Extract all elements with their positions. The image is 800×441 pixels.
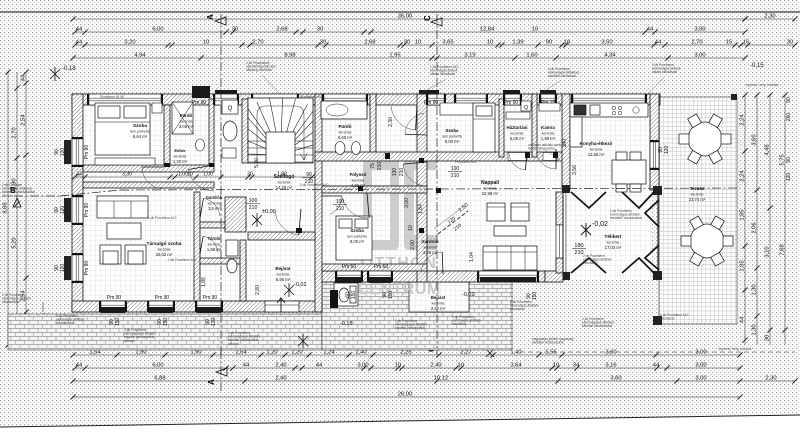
svg-text:Terasz: Terasz bbox=[690, 186, 705, 192]
svg-text:lam.parketta: lam.parketta bbox=[347, 235, 367, 239]
svg-text:44: 44 bbox=[316, 363, 323, 369]
svg-text:3,10: 3,10 bbox=[765, 246, 771, 257]
svg-text:haránt vakolással: haránt vakolással bbox=[652, 70, 677, 74]
svg-text:10,12: 10,12 bbox=[434, 376, 449, 382]
svg-text:3,56: 3,56 bbox=[572, 165, 578, 175]
interior rotated dims bbox=[201, 117, 578, 295]
interior wall társalgó/closets bbox=[194, 192, 200, 301]
note bottom 4 bbox=[395, 319, 427, 330]
note mid bbox=[300, 183, 329, 187]
note wall top2 bbox=[300, 95, 322, 99]
svg-text:120: 120 bbox=[60, 206, 66, 215]
dim chain bottom row3 bbox=[70, 376, 797, 384]
svg-text:építési hely határa: építési hely határa bbox=[746, 82, 779, 87]
exterior wall konyha east bbox=[650, 94, 659, 190]
svg-text:5,06 m²: 5,06 m² bbox=[510, 136, 525, 141]
section line A overlay bbox=[220, 90, 222, 355]
svg-text:lam.parketta: lam.parketta bbox=[442, 135, 462, 139]
svg-text:3,65: 3,65 bbox=[442, 40, 453, 46]
sill west 3 bbox=[64, 256, 71, 280]
headboard shelf szoba2 bbox=[440, 103, 473, 115]
kamra shelf bbox=[539, 103, 560, 111]
svg-text:3,06 m²: 3,06 m² bbox=[179, 124, 194, 129]
svg-text:44: 44 bbox=[653, 363, 660, 369]
svg-text:1,85: 1,85 bbox=[740, 260, 746, 271]
svg-text:1 db Porotherm A10: 1 db Porotherm A10 bbox=[148, 216, 177, 220]
dim chain right col3 bbox=[765, 92, 773, 345]
window szélfogó north bbox=[251, 94, 299, 105]
svg-text:44: 44 bbox=[21, 74, 27, 81]
svg-text:2,25: 2,25 bbox=[400, 350, 411, 356]
room label tároló bbox=[207, 236, 222, 252]
level star szélfogó bbox=[252, 213, 262, 227]
svg-text:1,40: 1,40 bbox=[510, 350, 521, 356]
kitchen counter bbox=[570, 103, 648, 117]
window szoba2 north small bbox=[426, 94, 446, 105]
svg-text:3,60: 3,60 bbox=[605, 350, 616, 356]
interior wall middle column west bbox=[315, 94, 322, 312]
washer háztartási bbox=[506, 112, 530, 119]
svg-text:2,54: 2,54 bbox=[21, 114, 27, 126]
svg-text:Pm 90: Pm 90 bbox=[504, 100, 519, 106]
svg-text:A: A bbox=[206, 14, 215, 20]
svg-text:17,03 m²: 17,03 m² bbox=[605, 245, 622, 250]
floor terasz bbox=[659, 97, 737, 324]
svg-text:30: 30 bbox=[404, 40, 410, 46]
svg-text:2,40: 2,40 bbox=[275, 363, 286, 369]
svg-text:210: 210 bbox=[377, 162, 383, 171]
svg-text:75: 75 bbox=[370, 163, 376, 169]
svg-text:3,20: 3,20 bbox=[124, 40, 135, 46]
interior wall wc east bbox=[240, 240, 246, 301]
svg-text:Folyosó: Folyosó bbox=[350, 172, 367, 177]
interior wall szélfogó/bejárat bbox=[248, 232, 315, 240]
room label bejárat1 bbox=[276, 266, 291, 282]
svg-text:100: 100 bbox=[336, 199, 345, 205]
télikert west glass bbox=[562, 192, 564, 273]
window nappali south bbox=[477, 271, 539, 282]
interior wall konyha west bbox=[562, 94, 570, 190]
svg-text:90: 90 bbox=[306, 172, 312, 178]
svg-text:Q: Q bbox=[228, 106, 233, 112]
svg-text:10: 10 bbox=[415, 40, 421, 46]
room label terasz bbox=[689, 186, 706, 202]
boiler wc column bbox=[222, 100, 238, 114]
svg-text:Szoba: Szoba bbox=[446, 128, 459, 133]
note mid4 bbox=[455, 160, 476, 164]
svg-text:2,30: 2,30 bbox=[764, 14, 775, 20]
note top 2 bbox=[430, 65, 459, 76]
svg-text:100: 100 bbox=[451, 166, 460, 172]
svg-text:-0,02: -0,02 bbox=[592, 221, 608, 228]
svg-text:10: 10 bbox=[187, 172, 193, 178]
svg-text:3,50: 3,50 bbox=[601, 40, 612, 46]
sill Pm60 a bbox=[337, 277, 361, 283]
exterior wall west bbox=[72, 94, 83, 312]
svg-text:2,30: 2,30 bbox=[388, 117, 394, 127]
right window size labels bbox=[786, 97, 792, 181]
room label szélfogó bbox=[274, 174, 295, 190]
svg-text:1,20: 1,20 bbox=[291, 350, 302, 356]
svg-text:kerámia: kerámia bbox=[278, 181, 291, 185]
interior wall middle column east bbox=[417, 94, 427, 282]
dim chain right col2 bbox=[752, 92, 760, 345]
svg-text:10: 10 bbox=[487, 40, 493, 46]
armchair társalgó 2 bbox=[125, 245, 146, 264]
svg-text:30: 30 bbox=[232, 27, 238, 33]
svg-text:150: 150 bbox=[388, 291, 394, 300]
svg-text:10: 10 bbox=[395, 363, 401, 369]
window south Pm90 b bbox=[147, 301, 175, 312]
note bottom 9 bbox=[660, 313, 689, 321]
svg-text:Pm 90: Pm 90 bbox=[203, 295, 218, 301]
jamb marks bbox=[164, 152, 558, 308]
svg-text:23,74 m²: 23,74 m² bbox=[689, 197, 706, 202]
svg-text:90: 90 bbox=[786, 157, 792, 163]
interior wall szoba3 south bbox=[322, 264, 427, 271]
lintel bar kamra bbox=[540, 90, 556, 95]
svg-text:30: 30 bbox=[320, 40, 326, 46]
svg-text:4,94: 4,94 bbox=[134, 53, 146, 59]
room label nappali bbox=[481, 180, 500, 196]
svg-text:Gardrób: Gardrób bbox=[206, 195, 223, 200]
window south Pm60 b bbox=[367, 271, 393, 282]
svg-text:kerámia: kerámia bbox=[511, 132, 524, 136]
room label szoba1 bbox=[130, 123, 150, 139]
svg-text:6,95 m²: 6,95 m² bbox=[276, 277, 291, 282]
svg-text:3,00: 3,00 bbox=[695, 376, 706, 382]
svg-text:betolásokkal: betolásokkal bbox=[56, 321, 74, 325]
dim chain bottom row2 bbox=[72, 363, 742, 371]
svg-text:Szoba: Szoba bbox=[133, 123, 147, 129]
svg-text:8,88: 8,88 bbox=[3, 202, 9, 213]
svg-text:építési hely határa: építési hely határa bbox=[719, 346, 752, 351]
note top 4 bbox=[652, 63, 681, 74]
leader line bbox=[262, 75, 280, 94]
svg-text:5,20: 5,20 bbox=[12, 237, 18, 248]
wardrobe szoba1 bbox=[95, 158, 155, 165]
svg-text:120: 120 bbox=[786, 173, 792, 182]
svg-text:2,70: 2,70 bbox=[12, 127, 18, 138]
dim chain right col1 bbox=[740, 92, 748, 345]
svg-text:Q: Q bbox=[524, 105, 529, 111]
section line A bbox=[206, 14, 227, 392]
lintel bar wc bbox=[215, 90, 237, 94]
section line B overlay bbox=[60, 190, 120, 196]
floor szoba1 + társalgó bbox=[83, 105, 315, 301]
exterior wall south-left bbox=[72, 301, 322, 312]
svg-text:30: 30 bbox=[247, 172, 253, 178]
svg-text:2,06: 2,06 bbox=[752, 222, 758, 233]
svg-text:alkosok: alkosok bbox=[124, 339, 135, 343]
télikert folding door east 2 bbox=[645, 245, 659, 270]
door bejárat2-nappali bbox=[421, 252, 443, 274]
dim chain bottom row4 26,00 bbox=[70, 392, 742, 400]
svg-text:1,30: 1,30 bbox=[752, 284, 758, 295]
svg-text:betolási vakolásokkal: betolási vakolásokkal bbox=[582, 324, 612, 328]
note bottom 2 bbox=[124, 328, 156, 343]
interior wall szoba2/háztartási bbox=[499, 99, 504, 157]
sliding door nappali-télikert bbox=[556, 225, 563, 258]
basin fürdő1 bbox=[196, 139, 205, 151]
door előtér2 bbox=[391, 104, 417, 130]
level star télikert bbox=[581, 223, 591, 237]
dim chain top row1 2,30 bbox=[742, 14, 797, 22]
svg-text:2,24: 2,24 bbox=[740, 170, 746, 182]
room label előtér bbox=[173, 148, 188, 164]
interior wall fürdő1 east bbox=[209, 99, 214, 167]
svg-text:kerámia: kerámia bbox=[607, 241, 620, 245]
room label társalgó bbox=[147, 241, 182, 257]
note télikert 2 bbox=[583, 254, 612, 265]
section line B bbox=[10, 186, 60, 207]
svg-text:8,64 m²: 8,64 m² bbox=[133, 134, 148, 139]
svg-text:130: 130 bbox=[392, 168, 398, 177]
dim chain top row2 bbox=[72, 27, 747, 35]
svg-text:260: 260 bbox=[786, 113, 792, 122]
svg-text:1,98 m²: 1,98 m² bbox=[207, 247, 222, 252]
svg-text:26,00: 26,00 bbox=[398, 392, 413, 398]
svg-text:210: 210 bbox=[336, 206, 345, 212]
floor télikert bbox=[563, 185, 651, 280]
svg-text:C: C bbox=[423, 15, 432, 21]
svg-text:44: 44 bbox=[647, 27, 654, 33]
door szoba1 bbox=[142, 167, 164, 189]
opening size label bbox=[246, 198, 260, 211]
svg-text:-0,15: -0,15 bbox=[750, 63, 764, 69]
svg-text:kerámia: kerámia bbox=[542, 132, 555, 136]
window konyha east bbox=[650, 140, 659, 170]
svg-text:180: 180 bbox=[574, 243, 583, 249]
exterior wall south-middle bbox=[315, 271, 545, 282]
dim chain left inner bbox=[21, 69, 29, 347]
svg-text:Fürdő: Fürdő bbox=[180, 113, 193, 118]
svg-text:Pm 90: Pm 90 bbox=[84, 261, 90, 276]
svg-text:120: 120 bbox=[664, 146, 670, 155]
entrance arrow bejárat1 bbox=[277, 298, 285, 312]
interior wall tároló/wc bbox=[200, 258, 246, 264]
room label gardrób1 bbox=[206, 195, 223, 211]
svg-text:-0,18: -0,18 bbox=[340, 321, 353, 327]
interior wall gardrób/tároló bbox=[200, 222, 246, 228]
level star walkway bbox=[298, 334, 308, 348]
svg-text:3,00: 3,00 bbox=[357, 363, 368, 369]
bed szoba2 bbox=[473, 103, 495, 152]
svg-text:atváltási vezetésszinte: atváltási vezetésszinte bbox=[532, 341, 564, 345]
opening size label bbox=[302, 172, 316, 185]
note bottom 1 bbox=[56, 314, 85, 325]
svg-text:Pm 60: Pm 60 bbox=[374, 264, 389, 270]
coffee table társalgó bbox=[107, 223, 141, 239]
svg-text:4,48: 4,48 bbox=[765, 144, 771, 155]
télikert corner post nw bbox=[562, 185, 570, 193]
svg-text:kerámia: kerámia bbox=[180, 120, 193, 124]
room label fürdő1 bbox=[179, 113, 194, 129]
svg-text:kerámia: kerámia bbox=[352, 179, 365, 183]
note lintel bbox=[528, 143, 566, 151]
note left2 bbox=[2, 293, 31, 304]
svg-text:100: 100 bbox=[249, 198, 258, 204]
floor middle column bbox=[322, 105, 427, 271]
svg-text:120: 120 bbox=[211, 318, 217, 327]
télikert east glass bbox=[657, 192, 659, 273]
interior wall szoba1 east bbox=[164, 105, 170, 167]
svg-text:kerámia: kerámia bbox=[339, 131, 352, 135]
svg-text:Porotherm 44K: Porotherm 44K bbox=[300, 95, 322, 99]
opening size label bbox=[572, 243, 586, 256]
terasz corner post sw bbox=[653, 316, 662, 325]
paved walkway hatched band middle bbox=[322, 282, 512, 350]
svg-text:1,20 m²: 1,20 m² bbox=[173, 159, 188, 164]
svg-text:Nappali: Nappali bbox=[481, 180, 500, 186]
window south Pm90 a bbox=[99, 301, 127, 312]
dining table konyha bbox=[612, 152, 646, 192]
svg-text:1,39: 1,39 bbox=[512, 40, 523, 46]
dim chain top row3 bbox=[72, 40, 797, 48]
svg-text:44: 44 bbox=[76, 172, 82, 178]
svg-text:3,00: 3,00 bbox=[694, 27, 705, 33]
Pm labels top bbox=[192, 100, 556, 106]
svg-text:4,34: 4,34 bbox=[604, 53, 616, 59]
svg-text:44: 44 bbox=[655, 40, 662, 46]
svg-text:lam.parketta: lam.parketta bbox=[130, 130, 150, 134]
sill Pm60 b bbox=[369, 277, 391, 283]
svg-text:Pm 90: Pm 90 bbox=[192, 100, 207, 106]
note left bbox=[2, 183, 35, 198]
room label szoba2 bbox=[442, 128, 462, 144]
svg-text:-0,02: -0,02 bbox=[294, 282, 307, 288]
room label szoba3 bbox=[347, 228, 367, 244]
svg-text:1,24: 1,24 bbox=[323, 350, 335, 356]
sofa társalgó bbox=[97, 196, 148, 218]
svg-text:Konyha-étkező: Konyha-étkező bbox=[580, 141, 613, 146]
svg-text:2 db Porotherm A10: 2 db Porotherm A10 bbox=[300, 183, 329, 187]
svg-text:alkosok: alkosok bbox=[228, 342, 239, 346]
sill south a bbox=[101, 307, 125, 313]
interior wall háztartási/kamra bbox=[532, 94, 537, 157]
svg-text:A: A bbox=[207, 379, 216, 385]
svg-text:1,90: 1,90 bbox=[135, 350, 146, 356]
sill south c bbox=[197, 307, 221, 313]
svg-text:3,00: 3,00 bbox=[695, 350, 706, 356]
chimney block bbox=[192, 86, 210, 98]
svg-text:2,92 m²: 2,92 m² bbox=[431, 306, 446, 311]
interior wall stairs west bbox=[242, 99, 248, 163]
svg-text:Bejárat: Bejárat bbox=[276, 266, 291, 271]
bed szoba1 bbox=[95, 103, 150, 155]
svg-text:2,00: 2,00 bbox=[410, 240, 416, 250]
room label télikert bbox=[604, 234, 621, 250]
svg-text:5,75: 5,75 bbox=[780, 154, 786, 165]
svg-text:Szélfogó: Szélfogó bbox=[274, 174, 295, 180]
svg-text:2,70: 2,70 bbox=[691, 40, 702, 46]
interior wall fürdő2 east bbox=[370, 94, 376, 157]
télikert folding door north 2 bbox=[622, 192, 654, 208]
svg-text:9,00 m²: 9,00 m² bbox=[350, 239, 365, 244]
svg-text:betolással: betolással bbox=[583, 261, 598, 265]
dim chain left outer 8,88 bbox=[3, 69, 11, 347]
door folyosó bbox=[403, 162, 427, 186]
basin oval wc column bbox=[223, 121, 237, 141]
room label kamra bbox=[541, 125, 556, 141]
svg-text:1,04: 1,04 bbox=[469, 252, 475, 262]
svg-text:90: 90 bbox=[786, 97, 792, 103]
interior wall folyosó/szoba3 bbox=[322, 186, 427, 193]
wc niche near porch bbox=[334, 283, 358, 306]
bed szoba3 bbox=[336, 216, 372, 260]
window wc north bbox=[213, 94, 239, 105]
svg-text:-0,02: -0,02 bbox=[462, 292, 475, 298]
diagonal door nappali corner bbox=[434, 202, 470, 234]
terasz post ne bbox=[731, 94, 737, 100]
room label gardrób2 bbox=[421, 239, 439, 255]
svg-text:3,30: 3,30 bbox=[122, 172, 132, 178]
sofa nappali bbox=[483, 246, 537, 270]
svg-text:210: 210 bbox=[249, 205, 258, 211]
svg-text:150: 150 bbox=[351, 291, 357, 300]
svg-text:2,80: 2,80 bbox=[255, 285, 261, 295]
svg-text:1,90: 1,90 bbox=[190, 350, 201, 356]
svg-text:2,40: 2,40 bbox=[275, 376, 286, 382]
svg-text:Porotherm A10: Porotherm A10 bbox=[455, 160, 476, 164]
svg-text:Gardrób: Gardrób bbox=[421, 239, 439, 244]
svg-text:Háztartási: Háztartási bbox=[507, 125, 528, 130]
svg-text:kerámia: kerámia bbox=[590, 148, 603, 152]
round table terasz 2 bbox=[681, 216, 733, 266]
svg-text:22,98 m²: 22,98 m² bbox=[482, 191, 499, 196]
interior dim row left y177 bbox=[72, 172, 314, 180]
svg-text:Pm 90: Pm 90 bbox=[107, 295, 122, 301]
opening size label bbox=[448, 166, 462, 179]
door kamra bbox=[536, 149, 556, 169]
watermark OC logo bbox=[363, 155, 437, 250]
window szoba2 north bbox=[454, 94, 488, 105]
svg-text:15: 15 bbox=[743, 40, 749, 46]
leader line bbox=[540, 81, 560, 94]
svg-text:Pm 90: Pm 90 bbox=[424, 100, 439, 106]
svg-text:1,54: 1,54 bbox=[235, 350, 247, 356]
lintel bar háztartási bbox=[503, 90, 520, 95]
svg-text:3,64: 3,64 bbox=[510, 363, 522, 369]
interior wall társalgó north bbox=[83, 182, 214, 188]
télikert folding door south 1 bbox=[571, 258, 606, 273]
svg-text:9,00 m²: 9,00 m² bbox=[445, 139, 460, 144]
svg-text:6,00: 6,00 bbox=[152, 27, 163, 33]
svg-text:15: 15 bbox=[726, 40, 732, 46]
note bottom 7 bbox=[582, 317, 614, 328]
interior wall below szoba1 bbox=[83, 165, 214, 172]
svg-text:1,84: 1,84 bbox=[418, 204, 424, 214]
svg-text:2,30: 2,30 bbox=[765, 376, 776, 382]
svg-text:30: 30 bbox=[787, 40, 793, 46]
Pm 90 labels bottom wall bbox=[107, 264, 389, 301]
télikert folding door north 1 bbox=[571, 192, 606, 208]
wall nappali/télikert upper bbox=[556, 192, 563, 225]
svg-text:Szoba: Szoba bbox=[350, 228, 364, 233]
svg-text:1 db Porotherm A10: 1 db Porotherm A10 bbox=[168, 258, 197, 262]
svg-text:2,68: 2,68 bbox=[364, 40, 375, 46]
svg-text:tasköteő vakolással: tasköteő vakolással bbox=[548, 74, 576, 78]
wall nappali/télikert lower bbox=[556, 258, 563, 273]
opening size label bbox=[333, 199, 347, 212]
svg-text:±0,00: ±0,00 bbox=[262, 209, 276, 215]
svg-text:haránt vakolással: haránt vakolással bbox=[430, 72, 455, 76]
note bottom 3 bbox=[228, 331, 260, 346]
level star bejárat bbox=[284, 283, 294, 297]
lintel bar szoba2 small bbox=[419, 90, 439, 95]
door gap háztartási bbox=[508, 153, 527, 161]
sill west 2 bbox=[64, 198, 71, 222]
